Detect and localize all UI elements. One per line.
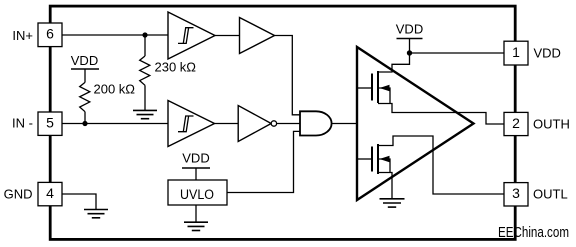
- svg-text:230 kΩ: 230 kΩ: [155, 60, 197, 75]
- svg-text:GND: GND: [4, 186, 33, 201]
- svg-text:200 kΩ: 200 kΩ: [94, 82, 136, 97]
- svg-text:4: 4: [46, 185, 54, 201]
- svg-text:VDD: VDD: [182, 151, 209, 166]
- svg-text:OUTH: OUTH: [533, 117, 570, 132]
- svg-text:UVLO: UVLO: [180, 187, 214, 202]
- svg-text:EEChina.com: EEChina.com: [498, 224, 569, 241]
- svg-text:VDD: VDD: [534, 46, 561, 61]
- svg-text:IN+: IN+: [12, 28, 33, 43]
- svg-text:VDD: VDD: [71, 53, 98, 68]
- svg-text:1: 1: [512, 44, 520, 60]
- svg-text:3: 3: [512, 185, 520, 201]
- svg-text:5: 5: [46, 114, 54, 130]
- svg-text:VDD: VDD: [396, 22, 423, 37]
- svg-text:6: 6: [46, 26, 54, 42]
- svg-text:2: 2: [512, 115, 520, 131]
- svg-text:OUTL: OUTL: [533, 187, 568, 202]
- svg-text:IN -: IN -: [12, 116, 33, 131]
